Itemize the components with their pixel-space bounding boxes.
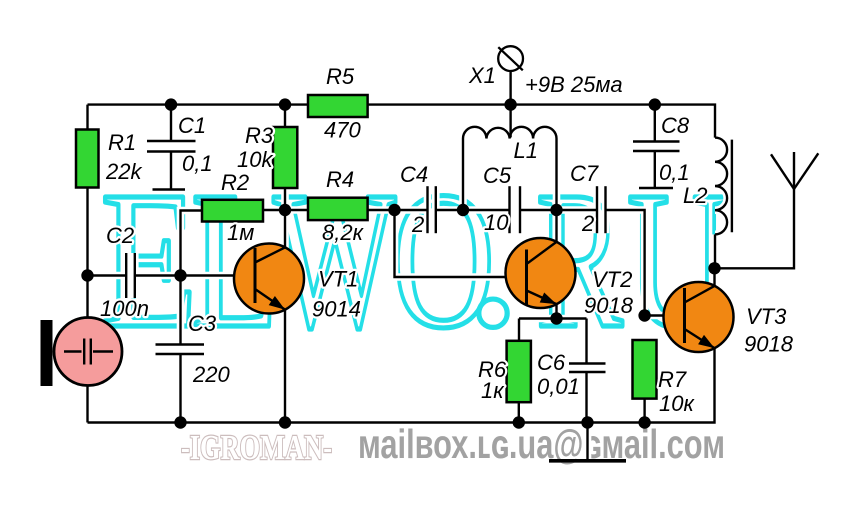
svg-text:VT3: VT3 [746,304,787,329]
svg-text:C7: C7 [570,161,599,186]
svg-text:1м: 1м [227,220,254,245]
svg-text:2: 2 [411,212,424,237]
svg-text:0,01: 0,01 [537,374,580,399]
svg-text:C8: C8 [661,113,690,138]
svg-text:0,1: 0,1 [659,160,690,185]
svg-text:L1: L1 [514,138,538,163]
svg-text:1к: 1к [481,378,505,403]
svg-text:L2: L2 [683,183,707,208]
svg-text:VT2: VT2 [592,267,632,292]
svg-text:0,1: 0,1 [182,151,213,176]
svg-text:R5: R5 [326,64,355,89]
svg-text:8,2к: 8,2к [322,220,365,245]
svg-text:9014: 9014 [312,297,361,322]
svg-text:9018: 9018 [584,293,634,318]
svg-text:10: 10 [484,210,509,235]
svg-text:470: 470 [324,118,361,143]
svg-text:10k: 10k [237,147,273,172]
svg-text:C5: C5 [483,163,512,188]
svg-text:2: 2 [581,211,594,236]
svg-text:R7: R7 [658,367,687,392]
svg-text:22k: 22k [105,159,142,184]
svg-text:220: 220 [192,362,230,387]
svg-text:10к: 10к [659,391,695,416]
svg-text:9018: 9018 [744,332,794,357]
svg-text:-IGROMAN-: -IGROMAN- [181,428,332,467]
svg-text:маіlвох.ʟɢ.ua@ɢмаіl.сом: маіlвох.ʟɢ.ua@ɢмаіl.сом [358,421,725,467]
svg-text:C4: C4 [400,162,428,187]
svg-text:X1: X1 [468,63,496,88]
svg-text:VT1: VT1 [318,267,358,292]
svg-text:C3: C3 [188,311,217,336]
svg-text:R2: R2 [221,170,249,195]
svg-text:C2: C2 [106,223,134,248]
svg-text:100n: 100n [100,296,149,321]
svg-text:C1: C1 [178,113,206,138]
svg-text:R4: R4 [326,167,354,192]
svg-text:R3: R3 [245,123,274,148]
svg-text:+9В 25ма: +9В 25ма [525,72,623,97]
svg-text:R1: R1 [108,130,136,155]
svg-text:C6: C6 [537,350,566,375]
